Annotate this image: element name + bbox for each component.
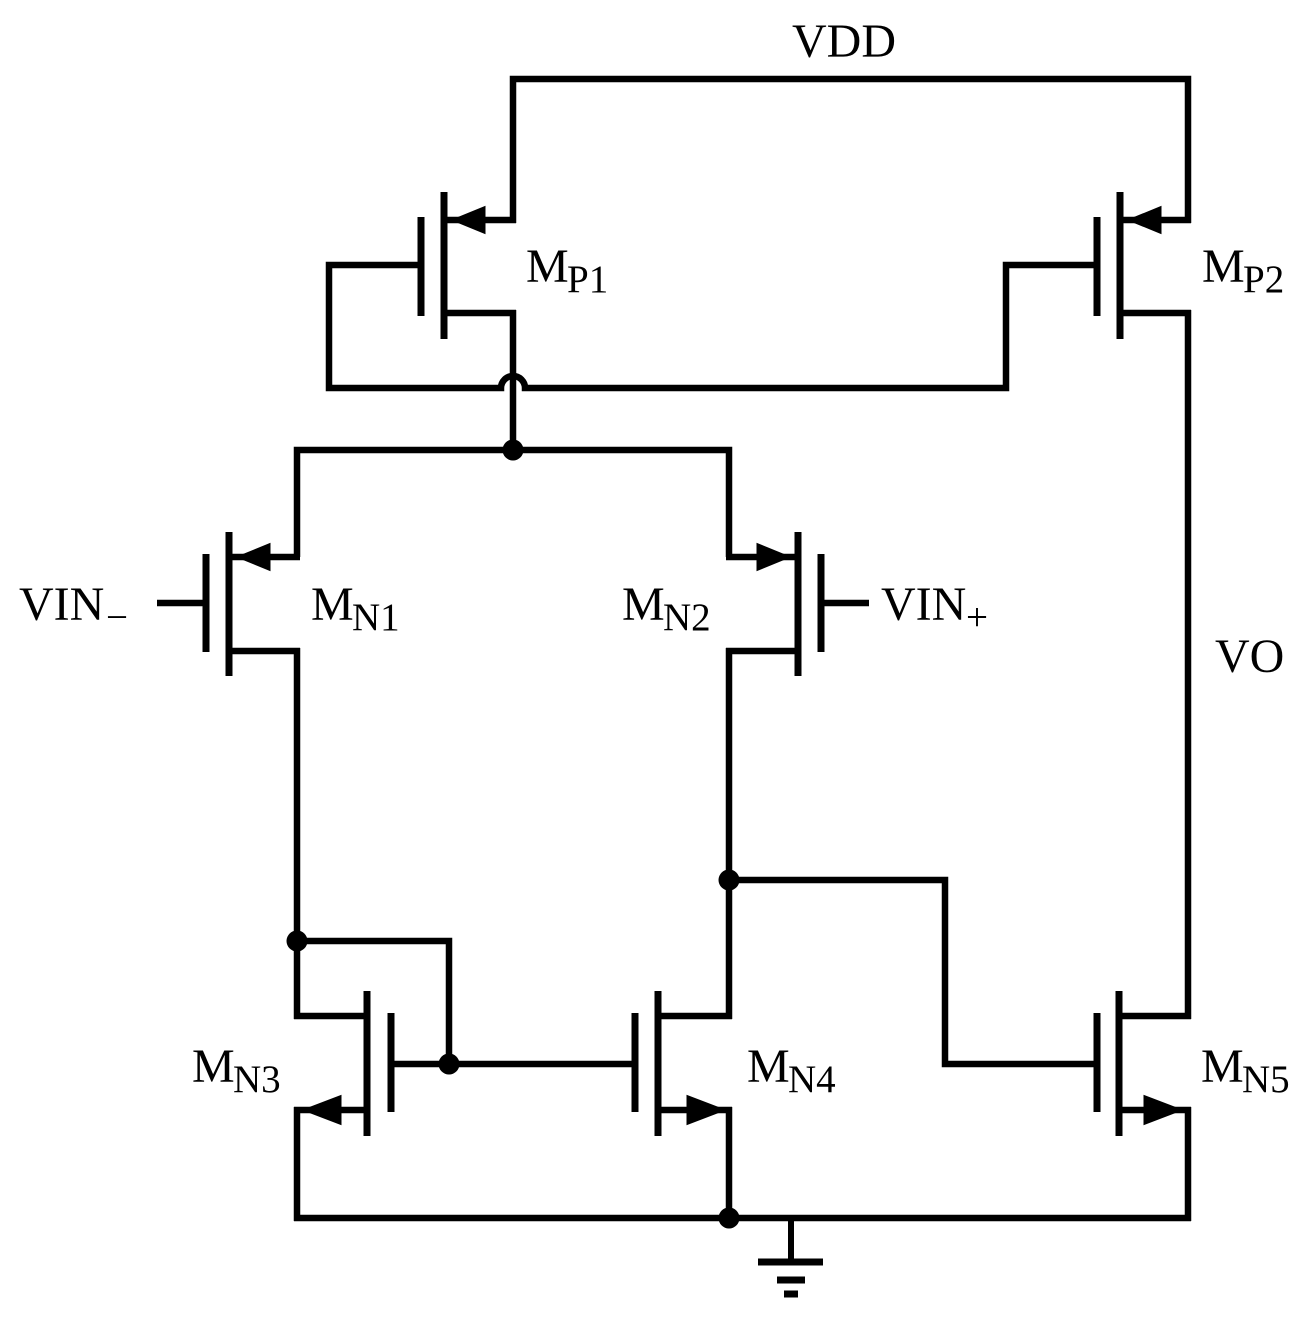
svg-text:VIN: VIN <box>19 578 104 631</box>
wire MN4 source down to ground rail <box>726 1107 733 1221</box>
wire VO net MP2 source down to MN5 drain <box>1185 310 1192 1019</box>
label MN1 <box>311 578 400 639</box>
svg-text:VO: VO <box>1215 630 1284 683</box>
wire gate line MN3 to MN4 <box>391 1061 635 1068</box>
transistor MN1 <box>157 532 300 676</box>
svg-text:M: M <box>526 240 569 293</box>
junction MN1 source node <box>287 931 308 952</box>
ground <box>758 1215 823 1294</box>
svg-text:M: M <box>311 578 354 631</box>
svg-text:M: M <box>622 578 665 631</box>
wire MN1 source node to MN3/MN4 gate line <box>297 941 449 1064</box>
svg-text:M: M <box>1202 240 1245 293</box>
label MN4 <box>747 1040 836 1101</box>
junction MN2 source node <box>719 870 740 891</box>
svg-text:N2: N2 <box>663 596 711 639</box>
wire node A horizontal to MN1 and MN2 drains <box>297 450 729 557</box>
wire MP1 drain down to node A <box>510 310 517 450</box>
svg-text:M: M <box>1201 1040 1244 1093</box>
label MP1 <box>526 240 608 301</box>
wire MN3 source down to ground rail <box>294 1107 301 1221</box>
label MN5 <box>1201 1040 1290 1101</box>
transistor MN2 <box>726 532 869 676</box>
wire ground rail <box>294 1215 1191 1222</box>
transistor MN3 <box>294 991 391 1136</box>
svg-text:−: − <box>106 596 128 639</box>
label MP2 <box>1202 240 1284 301</box>
junction node A (MP1 drain / diff pair drains) <box>503 440 524 461</box>
wire MN5 source down to ground rail <box>1185 1107 1192 1221</box>
svg-text:N3: N3 <box>233 1058 281 1101</box>
wire MN2 source down to MN4 drain <box>726 648 733 1019</box>
wire gate loop MP1 gate to MP2 gate with hop over MP1 drain <box>329 265 1097 388</box>
svg-text:VIN: VIN <box>881 578 966 631</box>
svg-text:VDD: VDD <box>792 15 896 68</box>
svg-text:N5: N5 <box>1242 1058 1290 1101</box>
wire MN1 source down to MN3 drain <box>294 648 301 1019</box>
label MN3 <box>192 1040 281 1101</box>
label MN2 <box>622 578 711 639</box>
svg-text:P1: P1 <box>567 258 608 301</box>
junction MN3/MN4 gate line <box>439 1054 460 1075</box>
transistor MP1 <box>421 192 516 339</box>
svg-text:M: M <box>747 1040 790 1093</box>
wire MN2 source node to MN5 gate <box>729 880 1097 1064</box>
transistor MN5 <box>1097 991 1191 1136</box>
svg-text:P2: P2 <box>1243 258 1284 301</box>
wire VDD rail with drops to MP1 and MP2 <box>513 79 1188 223</box>
transistor MP2 <box>1097 192 1191 339</box>
transistor MN4 <box>635 991 732 1136</box>
svg-text:+: + <box>966 596 988 639</box>
svg-text:N4: N4 <box>788 1058 836 1101</box>
junction ground rail <box>719 1208 740 1229</box>
label VIN- input <box>19 578 128 639</box>
svg-text:M: M <box>192 1040 235 1093</box>
label VIN+ input <box>881 578 988 639</box>
svg-text:N1: N1 <box>352 596 400 639</box>
